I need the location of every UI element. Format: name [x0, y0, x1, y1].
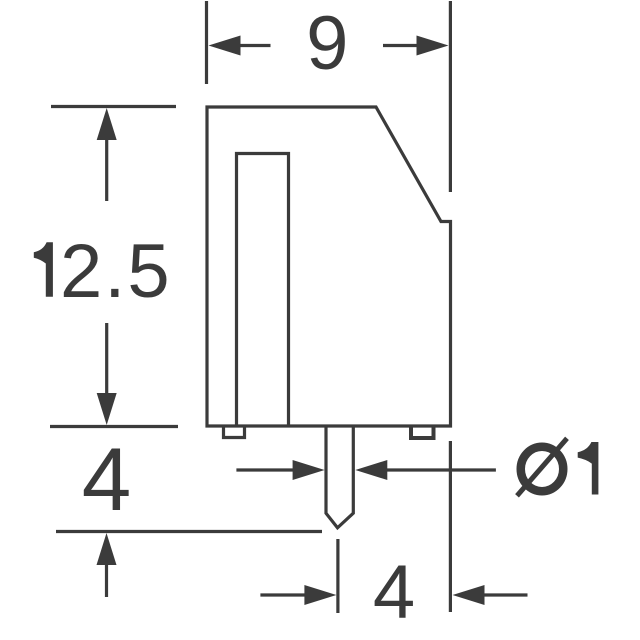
extension line bottom right — [449, 441, 452, 612]
pin — [326, 426, 353, 528]
dim 12.5 lower tail — [105, 323, 108, 395]
dim 9 left tail — [238, 44, 271, 47]
dim 12.5 upper tail — [105, 138, 108, 201]
extension line top right — [449, 1, 452, 192]
arrowhead 12.5 down — [97, 393, 117, 425]
dim dia1 left tail — [236, 468, 296, 471]
arrowhead 12.5 up — [97, 108, 117, 140]
arrowhead 4 up — [97, 533, 117, 565]
extension line 4 bottom — [56, 530, 322, 533]
extension line 12.5 top — [51, 105, 176, 108]
svg-text:2.5: 2.5 — [60, 229, 172, 314]
body outline — [207, 107, 451, 426]
arrowhead dia1 left-pointing — [355, 460, 387, 480]
svg-text:4: 4 — [82, 429, 132, 529]
dim 4 bottom right tail — [484, 593, 528, 596]
label dia symbol slash — [517, 438, 567, 496]
dim 4 left tail below — [105, 563, 108, 597]
left foot — [224, 426, 245, 438]
svg-text:4: 4 — [373, 550, 415, 635]
label dia symbol ring — [521, 447, 564, 492]
right foot — [411, 426, 434, 438]
extension line pin bottom left — [336, 539, 339, 613]
arrowhead 9 right — [417, 36, 449, 56]
inner slot — [237, 154, 289, 427]
arrowhead dia1 right-pointing — [293, 460, 325, 480]
arrowhead bottom 4 right-pointing — [304, 585, 336, 605]
extension line 12.5 bottom — [50, 425, 178, 428]
label dia digit 1 — [578, 442, 599, 495]
svg-text:9: 9 — [306, 1, 348, 86]
extension line top left — [205, 1, 208, 84]
arrowhead bottom 4 left-pointing — [453, 585, 485, 605]
dim 4 bottom left tail — [260, 593, 307, 596]
dim 9 right tail — [383, 44, 418, 47]
dim dia1 right tail — [387, 468, 496, 471]
label 12.5 digit 1 — [34, 242, 53, 297]
arrowhead 9 left — [209, 36, 241, 56]
